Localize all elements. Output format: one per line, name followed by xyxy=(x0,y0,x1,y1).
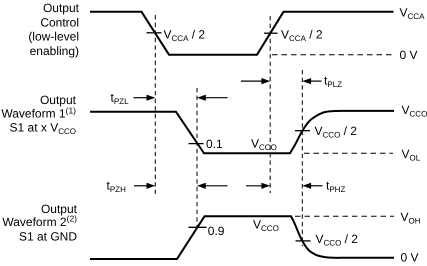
arrow tPZH pointing right at line A xyxy=(134,183,155,189)
svg-text:0.1: 0.1 xyxy=(206,137,223,151)
svg-text:enabling): enabling) xyxy=(30,44,79,58)
label Output Control (low-level enabling) xyxy=(28,1,79,58)
dashed vertical line B at control rising crossing xyxy=(269,16,271,193)
dashed VOL line xyxy=(304,152,393,154)
label Output Waveform 2 S1 at GND xyxy=(2,202,77,243)
svg-text:S1 at GND: S1 at GND xyxy=(19,229,77,243)
svg-text:Waveform 2(2): Waveform 2(2) xyxy=(2,214,77,229)
svg-text:Output: Output xyxy=(43,1,80,15)
arrow tPZL pointing right at line A xyxy=(134,95,156,101)
dashed VOH line xyxy=(295,215,394,217)
arrow tPZL pointing left at line D xyxy=(197,95,228,101)
dashed 0V line top xyxy=(272,54,393,56)
arrow tPHZ pointing left at line C xyxy=(302,183,322,189)
svg-text:Waveform 1(1): Waveform 1(1) xyxy=(1,106,76,121)
tick VCCO/2 waveform 1 xyxy=(295,130,310,132)
arrow tPHZ pointing right at line B xyxy=(246,183,270,189)
svg-text:(low-level: (low-level xyxy=(28,30,79,44)
arrow tPZH pointing left at line D xyxy=(197,183,228,189)
tick VCCA/2 falling xyxy=(147,32,162,34)
tick VCCA/2 rising xyxy=(264,32,278,34)
dashed vertical line D at output threshold crossing xyxy=(196,88,198,228)
dashed vertical line A at control falling crossing xyxy=(154,15,156,194)
tick 0.1 VCCO xyxy=(189,143,204,145)
tick VCCO/2 waveform 2 xyxy=(296,240,311,242)
svg-text:0.9: 0.9 xyxy=(208,224,225,238)
arrow tPLZ pointing left at line C xyxy=(302,78,321,84)
svg-text:0 V: 0 V xyxy=(401,251,419,265)
tick 0.9 VCCO xyxy=(189,226,207,228)
control waveform xyxy=(90,12,394,55)
arrow tPLZ pointing right at line B xyxy=(241,78,270,84)
label Output Waveform 1 S1 at x VCCO xyxy=(1,93,76,136)
dashed vertical line C at output VCCO/2 crossing xyxy=(301,70,303,246)
output waveform 2 xyxy=(90,216,394,259)
svg-text:Control: Control xyxy=(40,15,79,29)
output waveform 1 xyxy=(90,111,394,153)
svg-text:0 V: 0 V xyxy=(400,48,418,62)
